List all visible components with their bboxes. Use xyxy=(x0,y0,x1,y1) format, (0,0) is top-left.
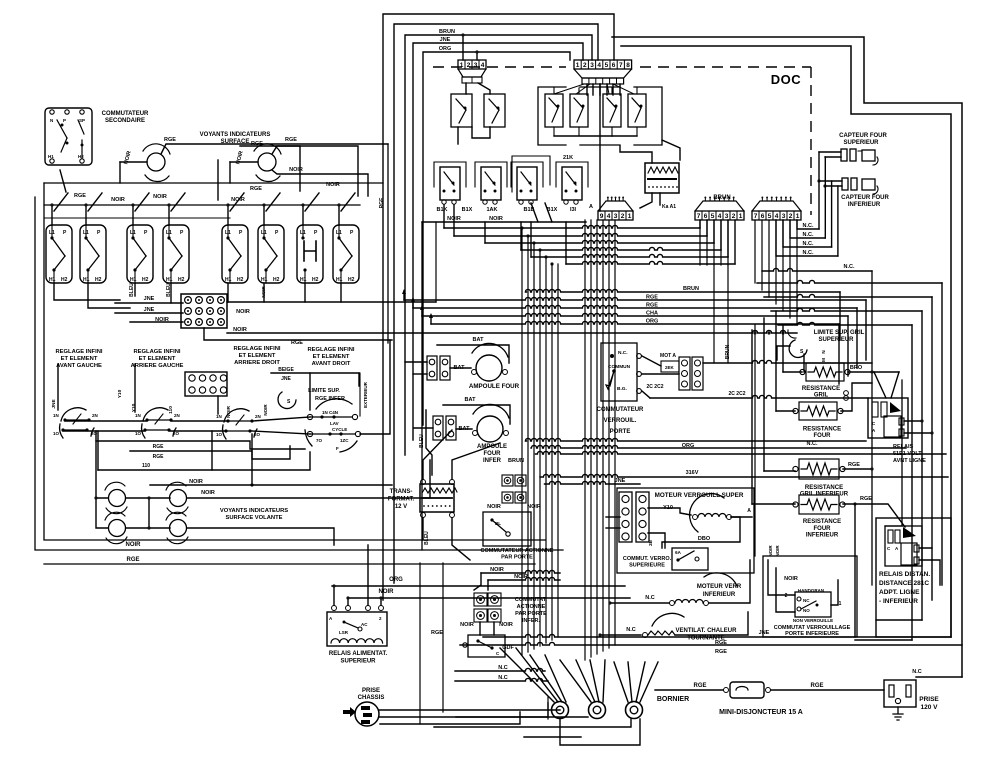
svg-text:RELAIS: RELAIS xyxy=(893,444,914,450)
commutateur verrouil contacts xyxy=(610,354,614,358)
wire relais alim drop2 xyxy=(347,598,349,605)
wire unit drop x297 xyxy=(302,205,304,225)
wire bus org mid xyxy=(525,438,866,441)
svg-text:NOIR: NOIR xyxy=(233,327,247,333)
svg-text:DBO: DBO xyxy=(698,536,711,542)
wire bus jne mid xyxy=(545,481,641,484)
wire right link 922 xyxy=(876,619,922,621)
wire lamp1 left xyxy=(120,161,147,163)
svg-text:1: 1 xyxy=(739,213,743,220)
svg-text:2O: 2O xyxy=(254,432,261,437)
svg-text:JNE: JNE xyxy=(51,399,57,409)
wire vio xyxy=(648,508,691,515)
svg-text:N.C.: N.C. xyxy=(803,250,814,256)
svg-text:NOIR: NOIR xyxy=(768,545,773,557)
svg-text:3: 3 xyxy=(474,62,478,69)
svg-text:BLEU: BLEU xyxy=(129,283,135,297)
wire strip stub2 xyxy=(606,527,620,529)
svg-text:RGE: RGE xyxy=(126,557,139,563)
surface switch unit 5 xyxy=(222,225,248,283)
svg-text:RGE: RGE xyxy=(431,630,443,636)
wire bus row 1 bend xyxy=(443,205,445,228)
svg-text:BAT: BAT xyxy=(465,397,477,403)
wire gril relay diag2 xyxy=(891,372,899,398)
svg-text:2: 2 xyxy=(785,593,788,599)
arrow ORG stub xyxy=(429,313,433,318)
svg-text:B.G.: B.G. xyxy=(617,386,627,392)
wire bundle A 1 xyxy=(521,228,523,655)
wire unit diag x127 xyxy=(135,193,149,211)
junction capteur b xyxy=(823,184,826,187)
svg-text:N.C.: N.C. xyxy=(803,241,814,247)
svg-text:REGLAGE INFINI: REGLAGE INFINI xyxy=(55,349,102,355)
svg-text:P: P xyxy=(63,118,66,123)
svg-text:2: 2 xyxy=(467,62,471,69)
wire bottom b2 xyxy=(380,712,520,724)
wire unit7 bottom xyxy=(304,283,306,302)
wire cv to mota xyxy=(642,356,661,366)
wire inf3 drop xyxy=(251,434,253,485)
svg-text:PRISE: PRISE xyxy=(362,688,380,694)
connector J4 xyxy=(752,211,801,220)
svg-text:AVNT LIGNE: AVNT LIGNE xyxy=(893,458,926,464)
wire bundle B 3 xyxy=(596,220,598,654)
terminal PI4 xyxy=(488,609,501,622)
svg-text:LIMITE SUP. GRIL: LIMITE SUP. GRIL xyxy=(814,330,865,336)
svg-text:RELAIS ALIMENTAT.: RELAIS ALIMENTAT. xyxy=(329,651,388,657)
wire thermostat lead2 xyxy=(777,346,790,360)
wire gril inf left xyxy=(764,470,795,472)
wire bus row 4 xyxy=(521,247,721,250)
svg-text:NOIR: NOIR xyxy=(514,574,528,580)
svg-text:NO: NO xyxy=(803,608,810,613)
wire L1 frame outer xyxy=(383,14,614,600)
svg-text:N.C.: N.C. xyxy=(803,232,814,238)
terminal pair T7 xyxy=(433,416,443,440)
wire lug3 fan 2 xyxy=(628,662,632,702)
svg-text:N.C: N.C xyxy=(498,675,508,681)
wire chassis col2 xyxy=(419,563,421,724)
wire ampoule left xyxy=(450,367,471,369)
svg-text:NOIR: NOIR xyxy=(775,545,780,557)
wire bus brun xyxy=(525,289,840,292)
junction volante2 xyxy=(147,526,150,529)
svg-text:LSR: LSR xyxy=(339,630,349,635)
svg-text:BRO: BRO xyxy=(850,365,863,371)
svg-text:B1X: B1X xyxy=(462,207,473,213)
svg-text:LIMITE SUP.: LIMITE SUP. xyxy=(308,388,340,394)
lamp volante 3 arc xyxy=(105,512,125,520)
svg-text:BLEU: BLEU xyxy=(424,531,430,545)
bornier lug 2 inner xyxy=(593,706,601,714)
wire bundle B 2 xyxy=(590,220,592,657)
wire lug1 fan 3 xyxy=(530,655,562,702)
terminal T12 xyxy=(515,492,526,503)
svg-text:FOUR: FOUR xyxy=(814,433,832,439)
wire right bus y325 drop xyxy=(911,325,913,640)
wire NC long xyxy=(762,268,872,271)
svg-text:NOIR: NOIR xyxy=(289,167,303,173)
svg-text:B1K: B1K xyxy=(436,207,447,213)
wire y10 drop xyxy=(97,431,99,470)
svg-text:ADPT. LIGNE: ADPT. LIGNE xyxy=(879,589,920,596)
commutateur actionne box xyxy=(483,512,531,546)
wire noir bottom xyxy=(350,597,630,599)
wire unit drop x258 xyxy=(263,205,265,225)
svg-text:NOIR: NOIR xyxy=(226,405,232,418)
svg-text:FOUR: FOUR xyxy=(814,526,832,532)
wire CHA stub xyxy=(421,307,423,316)
svg-text:H2: H2 xyxy=(61,277,68,283)
svg-text:SECONDAIRE: SECONDAIRE xyxy=(105,118,145,124)
svg-text:MOTEUR VERROUILL SUPER: MOTEUR VERROUILL SUPER xyxy=(655,492,744,499)
connector P1 pins 1-8 xyxy=(574,60,632,69)
wire porte inf noir1 xyxy=(474,573,481,590)
moteur verr super arc xyxy=(690,494,724,532)
svg-text:NOIR: NOIR xyxy=(460,622,474,628)
wire four inf left2 xyxy=(751,330,753,504)
wire clock up1 xyxy=(620,146,652,163)
wire lamp1 left2 xyxy=(119,162,121,183)
prise 120V ground xyxy=(893,707,903,720)
svg-text:2: 2 xyxy=(789,213,793,220)
resistor four xyxy=(799,402,837,420)
wire unit diag x46 xyxy=(54,193,68,211)
relais alim term 3 xyxy=(366,606,371,611)
svg-text:ACTIONNE: ACTIONNE xyxy=(517,604,546,610)
svg-text:BEIGE: BEIGE xyxy=(278,367,294,373)
junction bus row 5 xyxy=(544,255,547,258)
wire bus row 6 xyxy=(566,261,735,264)
terminal SEL4b xyxy=(574,200,578,204)
svg-text:P: P xyxy=(350,230,354,236)
wire ampoule left2 xyxy=(405,361,427,363)
svg-text:INFER: INFER xyxy=(483,458,502,464)
wire left frame top xyxy=(44,182,383,184)
wire porte inf noir1h xyxy=(481,570,560,573)
lamp volante 1 xyxy=(109,490,126,507)
svg-text:2: 2 xyxy=(379,616,382,621)
lamp volante 3 xyxy=(109,520,126,537)
prise 120V box xyxy=(884,680,916,707)
svg-text:NOIR: NOIR xyxy=(499,622,513,628)
wire bus brun drop xyxy=(839,292,841,340)
wire jne top row xyxy=(271,372,359,374)
svg-text:RGE: RGE xyxy=(250,186,262,192)
commutateur secondaire box xyxy=(45,108,92,165)
svg-text:3: 3 xyxy=(614,213,618,220)
wire right bus y325 xyxy=(778,322,912,325)
junction r51a xyxy=(920,419,923,422)
exterieur bracket xyxy=(359,373,361,416)
wire sel1 down xyxy=(435,222,437,302)
wire volante1 xyxy=(126,497,170,499)
lamp voyant 2 arc xyxy=(254,144,281,154)
wire bus row 4 drop xyxy=(720,220,722,250)
wire rge mid-drop2 xyxy=(217,160,219,200)
wire rge drop xyxy=(387,144,389,343)
wire infsw bus1 xyxy=(65,420,147,422)
svg-text:COMMUN: COMMUN xyxy=(608,364,631,370)
svg-text:4: 4 xyxy=(481,62,485,69)
svg-text:NOIR: NOIR xyxy=(784,576,798,582)
wire bundle B 6 xyxy=(614,220,616,645)
relais alim term 2 xyxy=(346,606,351,611)
wire bundle B 4 xyxy=(602,220,604,651)
junction unit x222 xyxy=(226,203,229,206)
wire unit drop x333 xyxy=(338,205,340,225)
svg-text:8: 8 xyxy=(626,62,630,69)
switch SEL1 bracket xyxy=(434,162,466,187)
svg-text:3: 3 xyxy=(590,62,594,69)
wire bus row 5 drop xyxy=(727,220,729,257)
wire NC stub 4 xyxy=(776,220,838,256)
svg-text:NOIR: NOIR xyxy=(263,404,268,416)
lamp ampoule inf terminal L xyxy=(473,431,478,436)
arrow RGE stub xyxy=(411,297,415,302)
svg-text:1O: 1O xyxy=(216,432,223,437)
svg-text:1O: 1O xyxy=(135,431,142,436)
svg-text:H1: H1 xyxy=(336,277,343,283)
wire chassis col1 xyxy=(442,563,444,712)
svg-text:RGE: RGE xyxy=(153,454,165,460)
bornier lug 1 outer xyxy=(552,702,569,719)
terminal PI3 xyxy=(474,609,487,622)
lamp ampoule terminal L xyxy=(472,370,477,375)
svg-text:6: 6 xyxy=(612,62,616,69)
svg-text:ET ELEMENT: ET ELEMENT xyxy=(239,353,276,359)
wire RGE stub xyxy=(403,291,405,300)
svg-text:FORMAT.: FORMAT. xyxy=(388,497,415,503)
svg-text:PAR PORTE: PAR PORTE xyxy=(501,555,533,561)
wire gril sup left xyxy=(783,371,802,373)
wire unit drop x163 xyxy=(168,205,170,225)
wire L2 frame xyxy=(394,24,598,583)
wire bus 2 mid xyxy=(531,445,906,448)
svg-text:H2: H2 xyxy=(78,154,84,159)
svg-text:BAT: BAT xyxy=(473,337,485,343)
wire NC stub 3 xyxy=(783,220,832,247)
resistor four inf xyxy=(799,495,839,514)
svg-text:N.C.: N.C. xyxy=(844,264,855,270)
terminal strip CV1 xyxy=(679,357,690,390)
connector P2 flare xyxy=(458,69,486,77)
wire porte inf noir2 xyxy=(488,577,560,580)
svg-text:INFERIEUR: INFERIEUR xyxy=(806,533,839,539)
terminal pair T8 xyxy=(446,416,456,440)
commutat porte infer box xyxy=(468,635,505,657)
infinite switch 1 xyxy=(61,408,86,421)
svg-text:VOYANTS INDICATEURS: VOYANTS INDICATEURS xyxy=(220,508,288,514)
svg-text:PAR PORTE: PAR PORTE xyxy=(515,611,547,617)
infinite switch 3 xyxy=(224,409,249,422)
wire bus 3 mid xyxy=(536,451,947,454)
wire lug3 fan 3 xyxy=(636,662,645,702)
svg-text:NOIR: NOIR xyxy=(490,567,504,573)
svg-text:21K: 21K xyxy=(563,155,573,161)
wire units jne2 xyxy=(115,312,183,314)
svg-text:COMMUTATEUR: COMMUTATEUR xyxy=(102,111,149,117)
svg-text:NOIR: NOIR xyxy=(487,504,501,510)
wire capteur sup lead2 xyxy=(825,156,841,158)
wire transformer out1 xyxy=(422,518,424,540)
junction noir1 xyxy=(753,331,756,334)
svg-text:2N: 2N xyxy=(92,413,98,418)
moteur verr inf arc xyxy=(704,573,737,586)
switch P2B box xyxy=(484,94,505,127)
lamp voyant 1 xyxy=(147,153,165,171)
junction gril sup xyxy=(870,370,873,373)
connector J3 BRUN xyxy=(695,211,744,220)
wire lug3 fan 4 xyxy=(640,662,658,702)
wire bundle D 3 xyxy=(768,220,770,297)
wire door-switch mid xyxy=(599,84,601,211)
commutateur secondaire contacts xyxy=(50,110,54,114)
wire bus row 3 bend xyxy=(484,222,486,243)
svg-text:1: 1 xyxy=(796,213,800,220)
commutat verrouillage outer xyxy=(763,556,857,637)
junction volante xyxy=(147,496,150,499)
wire cv bg out xyxy=(642,391,650,398)
switch SEL4 blade xyxy=(566,172,576,185)
lamp volante 1 arc xyxy=(105,482,125,490)
svg-text:NON VERROUILLE: NON VERROUILLE xyxy=(793,618,833,623)
prise 120V slots xyxy=(889,685,894,697)
junction unit x80 xyxy=(84,203,87,206)
arrow RGE stub xyxy=(402,289,406,294)
wire infsw bus3 xyxy=(171,420,228,422)
wire bundle C 2 xyxy=(706,220,708,265)
terminal strip TS2 xyxy=(636,492,649,542)
surface switch unit 1 xyxy=(46,225,72,283)
svg-text:7O: 7O xyxy=(316,438,323,443)
relay switch K3 xyxy=(603,94,621,127)
wire ventilat lead xyxy=(600,634,641,636)
junction unit x297 xyxy=(301,203,304,206)
svg-text:P: P xyxy=(97,230,101,236)
svg-text:RESISTANCE: RESISTANCE xyxy=(805,485,843,491)
lamp volante 4 xyxy=(170,520,187,537)
relais alimentat coil xyxy=(331,639,383,643)
junction P2 r1 xyxy=(461,33,464,36)
wire bundle A 6 xyxy=(551,264,553,640)
wire bus row 1 xyxy=(444,225,700,228)
svg-text:PORTE INFERIEURE: PORTE INFERIEURE xyxy=(785,631,839,637)
svg-text:C: C xyxy=(496,651,500,656)
switch P2A box xyxy=(451,94,472,127)
svg-text:ORG: ORG xyxy=(439,46,452,52)
wire ampoule inf left0 xyxy=(414,427,433,429)
wire P1 pin down 1 xyxy=(586,84,588,95)
junction bus row 3 xyxy=(532,241,535,244)
svg-text:M: M xyxy=(821,358,826,362)
svg-text:- INFERIEUR: - INFERIEUR xyxy=(879,598,918,605)
svg-text:4: 4 xyxy=(597,62,601,69)
svg-text:RGE: RGE xyxy=(74,193,86,199)
wire unit diag x163 xyxy=(171,193,185,211)
switch SEL2 bracket xyxy=(475,162,507,187)
wire sel link xyxy=(422,221,586,223)
svg-text:JNE: JNE xyxy=(615,478,626,484)
svg-text:NOIR: NOIR xyxy=(153,194,167,200)
wire ampoule left3 xyxy=(413,373,427,375)
svg-text:1: 1 xyxy=(628,213,632,220)
svg-text:VENTILAT. CHALEUR: VENTILAT. CHALEUR xyxy=(676,628,738,634)
svg-text:1: 1 xyxy=(576,62,580,69)
wire bundle A 3 xyxy=(533,243,535,649)
svg-text:110: 110 xyxy=(142,463,150,469)
wire pi nc1 xyxy=(455,668,545,671)
wire border step outer xyxy=(612,37,962,677)
wire infsw feed4 xyxy=(309,373,311,410)
wire pointer xyxy=(60,170,66,192)
wire infsw bus4 xyxy=(169,430,226,432)
svg-text:ARRIERE GAUCHE: ARRIERE GAUCHE xyxy=(131,363,184,369)
svg-text:COMMUTATEUR: COMMUTATEUR xyxy=(597,407,644,413)
junction bus row 2 xyxy=(526,234,529,237)
wire tb row1 ext xyxy=(227,301,436,303)
wire moteur inf right xyxy=(709,560,750,603)
resistor gril sup xyxy=(806,363,844,381)
switch SEL3 tall bracket xyxy=(512,156,550,192)
ventilat term L xyxy=(643,633,648,638)
wire bus row 6 bend xyxy=(565,222,567,264)
wire CHA drop xyxy=(847,316,849,376)
svg-text:BRUN: BRUN xyxy=(508,458,524,464)
wire RGE line xyxy=(413,305,857,308)
wire unit drop x80 xyxy=(85,205,87,225)
svg-text:RGE: RGE xyxy=(379,197,385,209)
junction bus row 4 xyxy=(538,248,541,251)
wire relais alim drop1 xyxy=(333,586,335,605)
svg-text:RGE: RGE xyxy=(810,683,823,689)
wire bundle C 1 xyxy=(699,220,701,265)
connector P2 pins 1-4 xyxy=(458,60,486,69)
wire pi box feed2 xyxy=(493,622,495,635)
svg-text:RGE: RGE xyxy=(291,340,303,346)
svg-text:H1: H1 xyxy=(48,154,54,159)
svg-text:4: 4 xyxy=(775,213,779,220)
svg-text:REGLAGE INFINI: REGLAGE INFINI xyxy=(133,349,180,355)
wire lug1 fan 1 xyxy=(500,648,554,702)
terminal pair T5 xyxy=(427,356,437,380)
connector P2 pin row xyxy=(462,77,482,83)
svg-text:MOTEUR VERR: MOTEUR VERR xyxy=(697,584,742,590)
wire left col1 xyxy=(96,431,108,498)
relais alim term 1 xyxy=(332,606,337,611)
svg-text:A: A xyxy=(872,428,876,433)
svg-text:H1: H1 xyxy=(83,277,90,283)
relay 2EK box xyxy=(661,361,679,372)
svg-text:ET ELEMENT: ET ELEMENT xyxy=(313,354,350,360)
junction unit x163 xyxy=(167,203,170,206)
svg-text:H2: H2 xyxy=(95,277,102,283)
wire infsw bus2 xyxy=(63,430,145,432)
relay switch K2 xyxy=(570,94,588,127)
svg-text:BLEU: BLEU xyxy=(419,434,425,448)
svg-text:ARRIERE DROIT: ARRIERE DROIT xyxy=(234,360,280,366)
commutat porte infer contacts xyxy=(463,643,467,647)
svg-text:H2: H2 xyxy=(237,277,244,283)
wire prise nc xyxy=(916,676,962,678)
svg-text:H1: H1 xyxy=(166,277,173,283)
wire P2A drop xyxy=(465,83,467,94)
svg-text:1N C4N: 1N C4N xyxy=(322,410,338,415)
wire lug3 fan 1 xyxy=(614,662,628,702)
terminal SEL3b xyxy=(529,200,533,204)
switch SEL4 bracket xyxy=(556,162,588,187)
junction unit x46 xyxy=(50,203,53,206)
